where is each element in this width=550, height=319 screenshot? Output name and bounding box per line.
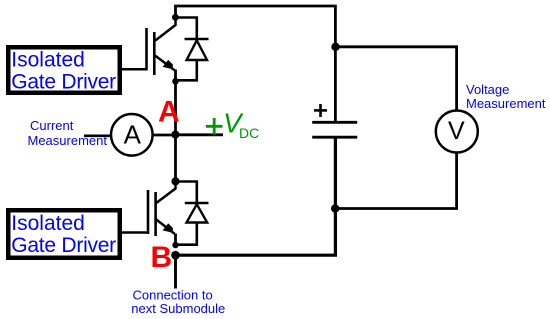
junction dot at Q1 collector / D1 / top rail (172, 14, 179, 21)
top gate driver label (11, 49, 116, 94)
node B label (151, 241, 173, 274)
node A label (158, 95, 180, 128)
top isolated gate driver box (8, 47, 120, 93)
svg-text:next Submodule: next Submodule (131, 301, 225, 316)
voltage measurement label (466, 82, 546, 111)
svg-text:V: V (448, 117, 465, 145)
svg-text:A: A (124, 119, 142, 149)
wire ammeter left stub (84, 135, 111, 138)
wire node A right stub to +VDC (176, 133, 224, 136)
capacitor C1 plus polarity mark (314, 104, 327, 117)
transistor Q2 (bottom IGBT) (148, 181, 176, 245)
junction dot at Q2 collector / D2 cathode (171, 177, 179, 185)
svg-text:Isolated: Isolated (11, 212, 85, 235)
wire from ammeter right side to node A (152, 134, 176, 137)
+VDC supply label (206, 108, 259, 141)
wire capacitor bottom lead down and left to node B (176, 138, 336, 255)
ammeter A (current measurement meter) (111, 114, 153, 156)
bottom isolated gate driver box (8, 210, 120, 258)
capacitor C1 plates (312, 122, 357, 137)
svg-text:Measurement: Measurement (28, 133, 108, 148)
svg-text:Gate Driver: Gate Driver (11, 70, 116, 93)
transistor Q1 (top IGBT) (147, 17, 176, 81)
connection to next submodule label (131, 287, 225, 316)
wire from voltmeter bottom to DC- node (335, 153, 456, 209)
svg-text:Isolated: Isolated (11, 49, 85, 72)
svg-text:Measurement: Measurement (466, 96, 546, 111)
svg-text:A: A (158, 95, 180, 128)
diode D1 (top freewheeling diode) (176, 18, 209, 81)
junction dot DC- at capacitor bottom branch (331, 204, 339, 212)
svg-text:DC: DC (239, 125, 259, 141)
junction dot DC+ at capacitor top branch (331, 43, 339, 51)
junction dot at Q1 emitter / D1 anode (172, 78, 179, 85)
wire from DC+ node to voltmeter top (335, 47, 456, 111)
diode D2 (bottom freewheeling diode) (176, 182, 209, 245)
node A junction dot (171, 131, 179, 139)
svg-text:Current: Current (30, 118, 74, 133)
svg-text:B: B (151, 241, 173, 274)
bottom gate driver label (11, 212, 116, 257)
wire phase leg from Q1 emitter through node A to Q2 collector (174, 81, 177, 181)
node B junction dot (171, 251, 180, 260)
wire connection stub below node B (174, 255, 177, 288)
junction dot at Q2 emitter / D2 anode (172, 242, 178, 248)
svg-text:Gate Driver: Gate Driver (11, 234, 116, 257)
wire gate lead from top gate driver to Q1 gate (122, 68, 147, 71)
current measurement label (28, 118, 108, 148)
wire gate lead from bottom gate driver to Q2 gate (122, 231, 148, 234)
voltmeter V (voltage measurement meter) (436, 111, 478, 153)
wire top rail from Q1 collector to DC-link capacitor top (176, 6, 336, 121)
svg-text:Voltage: Voltage (466, 82, 509, 97)
